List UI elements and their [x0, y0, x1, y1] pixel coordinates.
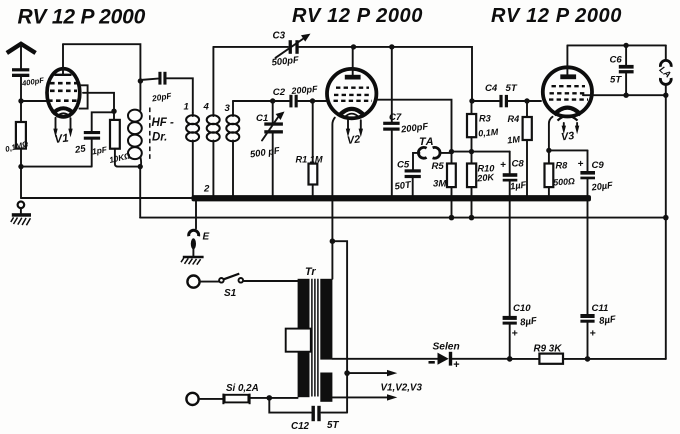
svg-text:Selen: Selen	[433, 342, 460, 353]
wire C400 to node A1	[20, 77, 22, 122]
capacitor C7 200pF	[383, 47, 429, 196]
svg-text:3M: 3M	[433, 179, 447, 190]
svg-text:C7: C7	[389, 112, 402, 123]
tube V1 heater leads	[53, 118, 72, 138]
chassis bus bar	[192, 195, 592, 201]
svg-text:V1: V1	[54, 132, 69, 146]
connector TA	[413, 136, 452, 169]
wire R5 to C8 top	[452, 151, 510, 153]
node heater arrow tap	[344, 370, 350, 376]
svg-text:C2: C2	[273, 87, 286, 98]
wire heater output 2	[332, 394, 397, 400]
wire C-25 to ground wire	[21, 140, 92, 167]
capacitor C4 5T	[472, 83, 541, 107]
tube V2 heater leads	[346, 120, 363, 137]
tube V2 grid 3	[334, 100, 373, 102]
terminal mains top	[187, 276, 199, 288]
svg-text:C12: C12	[291, 421, 310, 432]
svg-text:Dr.: Dr.	[152, 132, 167, 144]
wire C11 to right edge	[588, 358, 666, 360]
svg-text:4: 4	[203, 102, 210, 113]
svg-text:S1: S1	[224, 288, 237, 299]
wire tap elbow right	[332, 241, 347, 412]
node A2	[18, 164, 23, 169]
switch S1	[200, 274, 298, 299]
node C6 top	[623, 43, 628, 48]
node R4 top	[524, 98, 529, 103]
wire heater rail horizontal	[140, 217, 666, 219]
transformer primary bar lower	[298, 352, 310, 398]
svg-text:TA: TA	[419, 136, 435, 148]
svg-text:2: 2	[203, 184, 210, 195]
transformer tap box	[286, 329, 311, 352]
wire E to earth	[192, 248, 194, 256]
resistor R1 1M	[296, 101, 323, 196]
tube V1 grid 1	[50, 82, 77, 85]
node right heater rail	[663, 215, 669, 221]
tube V2 cathode	[339, 109, 366, 118]
capacitor 20pF	[140, 72, 192, 113]
svg-text:C10: C10	[513, 303, 531, 314]
capacitor C10 8uF	[503, 303, 539, 359]
tube V1 grid 3	[48, 99, 79, 102]
capacitor C5 50T	[394, 160, 421, 196]
capacitor C6 5T	[610, 45, 634, 95]
capacitor 400pF	[12, 68, 45, 88]
tube V3 anode	[560, 45, 576, 79]
svg-text:V3: V3	[560, 130, 575, 144]
svg-text:20K: 20K	[476, 172, 496, 184]
node C1 top	[270, 98, 275, 103]
wire bus to E terminal	[195, 201, 197, 229]
capacitor C1 variable 500pF	[249, 101, 284, 196]
wire node A2 down	[20, 167, 22, 198]
tube V2 grid 1	[336, 86, 369, 88]
wire right edge down	[665, 95, 667, 359]
capacitor C12 5T	[291, 406, 347, 432]
ground earth left	[11, 213, 31, 225]
wire C3 to V2 anode rail	[299, 47, 472, 101]
svg-text:RV 12 P 2000: RV 12 P 2000	[18, 6, 146, 29]
wire V3 cathode to R8	[549, 117, 553, 151]
svg-text:8µF: 8µF	[520, 315, 539, 328]
wire V3 to LA	[583, 94, 666, 96]
node A1	[18, 98, 23, 103]
tube V3 grid 1	[552, 85, 586, 87]
svg-text:Tr: Tr	[305, 266, 316, 278]
tube V3 grid 3	[549, 98, 588, 100]
node C10 bottom	[507, 356, 513, 362]
tube V1 anode	[55, 44, 72, 75]
svg-text:RV 12 P 2000: RV 12 P 2000	[491, 5, 622, 27]
wire fuse to C12	[269, 398, 311, 413]
wire V3 anode top rail	[567, 44, 665, 46]
node V2 grid	[310, 98, 315, 103]
node R5 top	[449, 149, 454, 154]
tube V2 anode	[345, 47, 361, 80]
capacitor 25 1pF	[73, 131, 108, 156]
antenna	[7, 44, 36, 53]
resistor R9 3K	[510, 344, 588, 364]
wire V1 grid2 to node B	[83, 93, 114, 111]
capacitor C9 20uF	[578, 150, 614, 313]
wire heater output 1	[347, 370, 397, 376]
capacitor C3 variable 500pF	[271, 31, 310, 68]
coil 3	[226, 101, 239, 196]
transformer primary bar upper	[298, 279, 310, 329]
capacitor C2 200pF	[273, 84, 319, 108]
terminal antenna ground	[18, 202, 25, 209]
fuse Si 0,2A	[199, 383, 298, 404]
svg-text:1µF: 1µF	[510, 180, 527, 192]
node B	[111, 109, 116, 114]
resistor R10 20K	[467, 152, 496, 218]
wire V1 anode top	[63, 44, 140, 81]
wire antenna to C400	[20, 45, 22, 68]
svg-text:R1 1M: R1 1M	[296, 155, 323, 165]
svg-text:0,1M: 0,1M	[478, 127, 499, 139]
svg-text:R8: R8	[556, 161, 569, 171]
choke HF-Dr	[128, 81, 174, 167]
svg-text:C3: C3	[273, 31, 286, 42]
wire top rail C3	[213, 46, 288, 48]
svg-text:+: +	[512, 328, 518, 340]
svg-text:50T: 50T	[394, 178, 413, 191]
svg-text:5T: 5T	[327, 420, 339, 431]
svg-text:R5: R5	[432, 161, 445, 172]
terminal E	[189, 230, 210, 249]
svg-text:R4: R4	[508, 114, 520, 124]
ground earth E	[181, 257, 204, 265]
wire chassis left to bus	[21, 197, 192, 199]
wire rectifier feed	[332, 358, 437, 360]
svg-text:1: 1	[184, 102, 189, 113]
tube V2 envelope	[327, 69, 376, 118]
svg-text:RV 12 P 2000: RV 12 P 2000	[292, 5, 423, 27]
wire V2 heater to transformer	[332, 118, 334, 242]
svg-text:+: +	[500, 160, 506, 171]
svg-text:V1,V2,V3: V1,V2,V3	[381, 383, 423, 394]
node heater tap	[330, 238, 336, 244]
svg-text:+: +	[578, 159, 584, 170]
svg-text:5T: 5T	[506, 83, 518, 94]
node C11 bottom	[585, 356, 591, 362]
resistor R-ant 0,1M	[4, 122, 29, 154]
tube V2 grid 2	[334, 94, 371, 96]
wire tap to secondary top	[331, 241, 333, 279]
node fuse junction	[267, 395, 273, 401]
svg-text:C9: C9	[592, 160, 605, 171]
tube V1 grid 2	[50, 90, 77, 93]
node R3 top	[469, 98, 474, 103]
wire coil3 to C2	[233, 100, 273, 102]
capacitor C8 1uF	[500, 152, 527, 316]
capacitor C11 8uF	[580, 303, 617, 359]
wire node A1 to V1 grid	[21, 100, 50, 102]
svg-text:V2: V2	[346, 133, 361, 147]
diode Selen	[429, 342, 510, 372]
svg-text:R3: R3	[479, 114, 491, 124]
wire HF bottom down	[139, 167, 141, 218]
coil 4	[207, 47, 220, 196]
svg-text:HF -: HF -	[152, 117, 175, 129]
node V2 anode top	[351, 44, 356, 49]
svg-text:C4: C4	[485, 83, 498, 94]
terminal mains bottom	[186, 393, 198, 405]
node R10 heater rail	[469, 215, 475, 221]
svg-text:E: E	[203, 232, 210, 243]
node anode V1	[138, 78, 143, 83]
svg-text:1M: 1M	[507, 134, 521, 145]
resistor 10K	[108, 111, 139, 166]
tube V3 envelope	[543, 67, 592, 116]
node R10 top	[469, 149, 474, 154]
transformer secondary bar upper	[320, 279, 332, 360]
svg-text:C6: C6	[610, 55, 623, 66]
svg-text:+: +	[453, 359, 460, 371]
tube V1 cathode	[53, 108, 75, 117]
svg-text:C5: C5	[397, 160, 410, 171]
node C6 bottom	[623, 93, 628, 98]
resistor R5 3M	[432, 152, 456, 218]
svg-text:8µF: 8µF	[599, 314, 618, 327]
tube V1 envelope	[47, 69, 80, 117]
tube V3 cathode	[554, 108, 581, 121]
tube V3 heater leads	[562, 123, 580, 134]
resistor R3 0,1M	[467, 101, 499, 152]
coil 1	[186, 113, 199, 196]
transformer secondary bar lower	[320, 373, 332, 402]
node C7 top	[389, 44, 394, 49]
svg-text:500Ω: 500Ω	[553, 176, 575, 187]
transformer core laminations	[312, 279, 318, 397]
wire V2 right to R5 column	[378, 100, 452, 152]
svg-text:R9 3K: R9 3K	[534, 344, 563, 355]
svg-text:C11: C11	[592, 303, 609, 314]
svg-text:C1: C1	[256, 113, 268, 124]
node R5 heater rail	[449, 215, 455, 221]
wire R8 to C9	[549, 149, 588, 151]
svg-text:3: 3	[225, 103, 231, 114]
wire node to V2	[313, 100, 327, 102]
node R8 top	[546, 148, 551, 153]
resistor R4 1M	[507, 101, 532, 196]
svg-text:+: +	[590, 328, 596, 340]
svg-text:Si 0,2A: Si 0,2A	[226, 383, 259, 394]
wire R-ant to ground wire	[20, 149, 22, 167]
connector LA	[657, 45, 673, 95]
tube V3 grid 2	[550, 92, 588, 94]
wire node B to C-25	[92, 112, 114, 131]
resistor R8 500ohm	[545, 150, 576, 195]
svg-text:C8: C8	[512, 159, 525, 170]
svg-text:5T: 5T	[610, 75, 622, 86]
wire terminal to earth	[20, 208, 22, 213]
tube V1 grid cap hook	[80, 85, 88, 108]
node HF bottom	[138, 164, 143, 169]
node LA bottom	[663, 93, 668, 98]
